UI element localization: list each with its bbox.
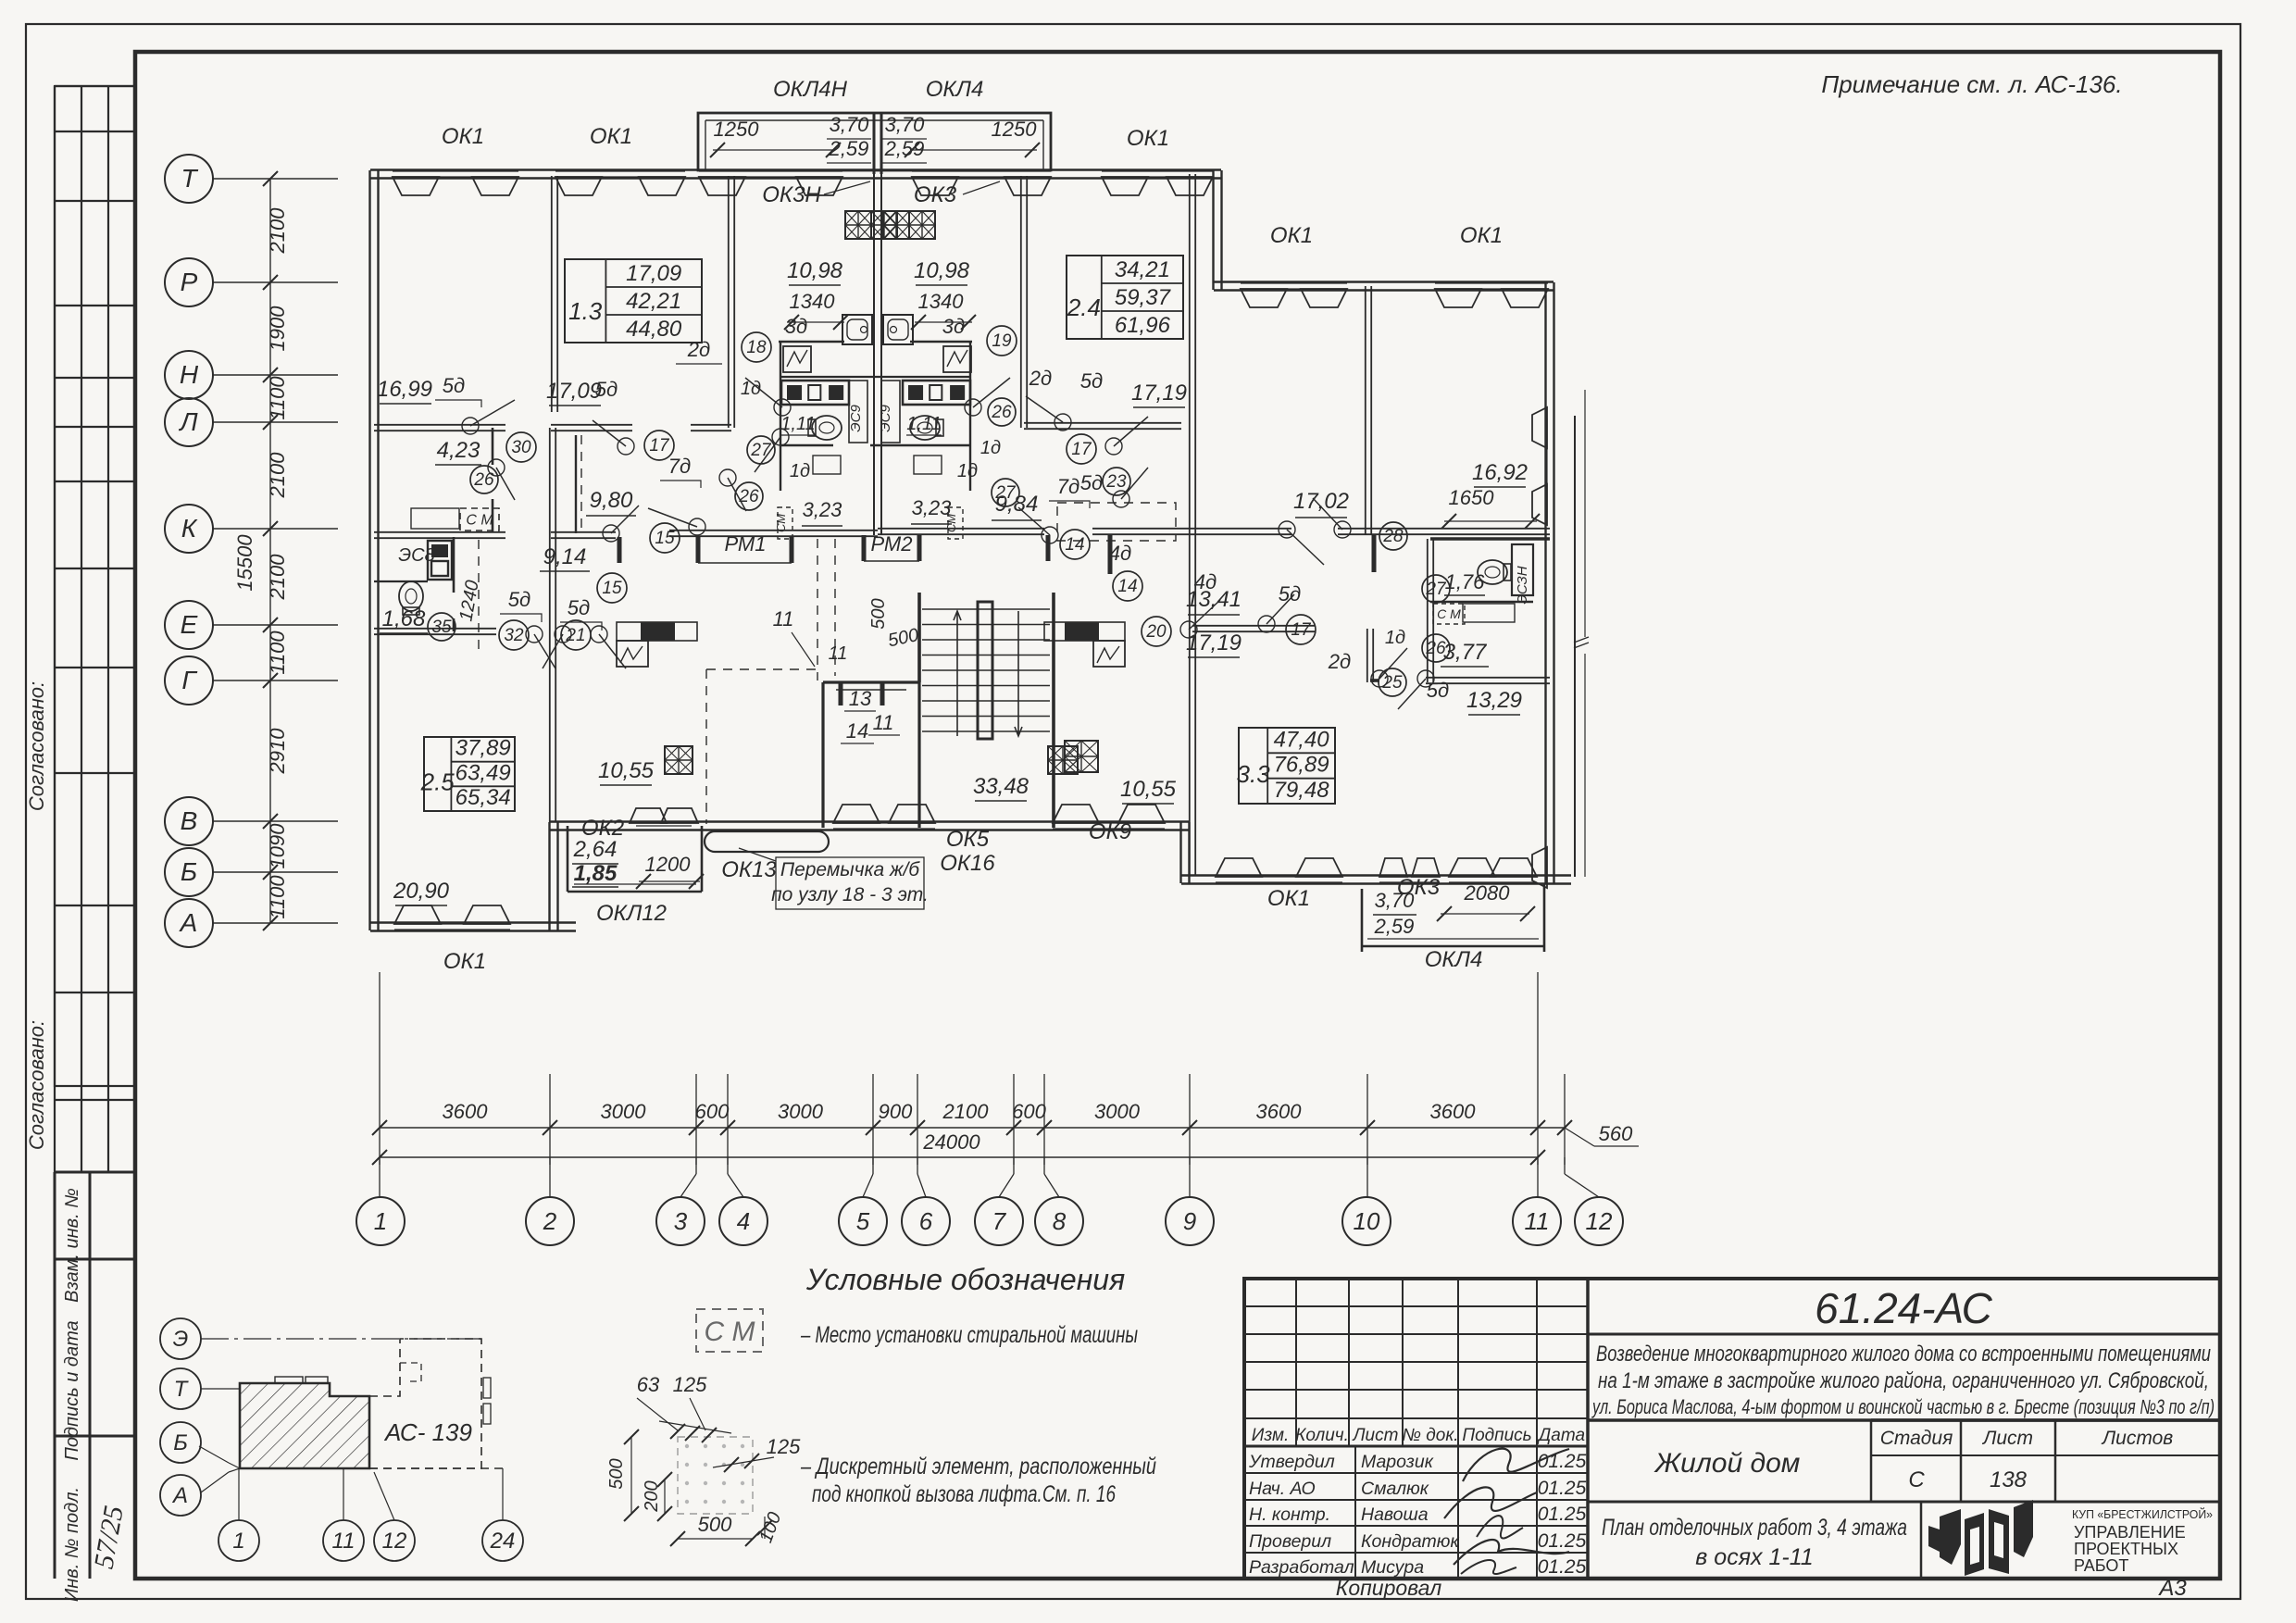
svg-text:Проверил: Проверил — [1249, 1531, 1331, 1552]
svg-text:138: 138 — [1990, 1467, 2028, 1492]
legend SM symbol — [696, 1309, 763, 1352]
svg-text:2д: 2д — [1328, 650, 1351, 673]
svg-text:ОК1: ОК1 — [1127, 126, 1169, 151]
svg-text:Утвердил: Утвердил — [1248, 1452, 1335, 1472]
svg-text:20,90: 20,90 — [393, 879, 450, 904]
svg-text:ОК13: ОК13 — [721, 857, 777, 882]
svg-text:17,09: 17,09 — [626, 261, 681, 286]
svg-text:1,76: 1,76 — [1445, 570, 1486, 593]
svg-text:59,37: 59,37 — [1115, 285, 1172, 310]
svg-text:15: 15 — [602, 579, 622, 598]
svg-text:9,80: 9,80 — [590, 488, 633, 513]
svg-text:17,02: 17,02 — [1293, 489, 1349, 514]
left side table strip — [55, 85, 135, 87]
svg-text:63: 63 — [637, 1373, 660, 1396]
svg-text:Перемычка ж/б: Перемычка ж/б — [780, 859, 920, 880]
svg-text:900: 900 — [879, 1100, 913, 1123]
svg-text:Н. контр.: Н. контр. — [1249, 1504, 1330, 1525]
svg-text:РАБОТ: РАБОТ — [2074, 1556, 2128, 1575]
svg-text:2,64: 2,64 — [573, 837, 618, 862]
svg-text:3600: 3600 — [1256, 1100, 1303, 1123]
svg-text:5д: 5д — [508, 588, 530, 611]
staircase — [922, 608, 1050, 610]
svg-text:1100: 1100 — [266, 376, 289, 420]
bottom axis numbers and dimension chains — [379, 972, 381, 1165]
svg-text:500: 500 — [868, 598, 889, 629]
svg-text:Нач. АО: Нач. АО — [1249, 1479, 1316, 1499]
svg-text:Н: Н — [180, 360, 199, 389]
svg-text:2100: 2100 — [266, 554, 289, 601]
svg-text:10,55: 10,55 — [598, 758, 655, 783]
svg-text:А3: А3 — [2157, 1576, 2187, 1601]
svg-text:10,55: 10,55 — [1120, 777, 1177, 802]
svg-text:1250: 1250 — [992, 118, 1038, 141]
svg-text:16,99: 16,99 — [377, 377, 432, 402]
svg-text:61.24-АС: 61.24-АС — [1815, 1284, 1993, 1332]
svg-text:1д: 1д — [957, 461, 978, 481]
svg-text:14: 14 — [1117, 577, 1137, 596]
svg-text:21: 21 — [565, 626, 585, 645]
svg-text:1090: 1090 — [266, 823, 289, 869]
interior walls — [551, 176, 553, 412]
svg-text:3,23: 3,23 — [803, 498, 843, 521]
svg-text:Т: Т — [181, 164, 198, 193]
svg-text:1,11: 1,11 — [780, 414, 815, 434]
svg-text:по узлу 18 - 3 эт.: по узлу 18 - 3 эт. — [771, 884, 929, 905]
SM washing machine boxes — [460, 508, 499, 531]
svg-text:ОК1: ОК1 — [442, 124, 484, 149]
svg-text:СМ: СМ — [774, 514, 788, 532]
svg-text:ОК3: ОК3 — [914, 182, 957, 207]
svg-text:1100: 1100 — [266, 630, 289, 675]
svg-text:1,85: 1,85 — [574, 861, 618, 886]
svg-text:Копировал: Копировал — [1336, 1576, 1441, 1600]
svg-text:План отделочных работ 3, 4 эта: План отделочных работ 3, 4 этажа — [1602, 1515, 1907, 1541]
svg-text:ОК3: ОК3 — [1397, 875, 1441, 900]
door swings — [470, 400, 515, 426]
svg-text:14: 14 — [1065, 535, 1084, 555]
svg-text:АС- 139: АС- 139 — [383, 1418, 472, 1446]
svg-text:12: 12 — [1586, 1207, 1613, 1235]
elevator shaft — [823, 680, 919, 683]
svg-text:27: 27 — [750, 441, 772, 460]
svg-text:17: 17 — [1071, 440, 1092, 459]
svg-text:500: 500 — [698, 1513, 732, 1536]
svg-text:1д: 1д — [741, 379, 761, 399]
svg-text:01.25: 01.25 — [1538, 1556, 1587, 1578]
svg-text:17: 17 — [1291, 620, 1312, 640]
svg-text:11: 11 — [332, 1529, 356, 1554]
svg-text:14: 14 — [846, 719, 868, 743]
svg-text:1д: 1д — [1385, 628, 1405, 648]
svg-text:1д: 1д — [790, 461, 810, 481]
svg-text:28: 28 — [1382, 527, 1404, 546]
svg-text:23: 23 — [1105, 472, 1127, 492]
left axis letters and vertical dimension chain — [165, 155, 213, 203]
svg-text:3600: 3600 — [1430, 1100, 1477, 1123]
svg-text:5д: 5д — [568, 596, 590, 619]
svg-text:Е: Е — [181, 610, 198, 639]
svg-text:2910: 2910 — [266, 728, 289, 775]
ventilation shafts with X pattern — [845, 211, 871, 239]
svg-text:3д: 3д — [942, 315, 965, 338]
svg-text:ЭС9: ЭС9 — [848, 405, 864, 432]
svg-text:1,68: 1,68 — [382, 606, 426, 631]
svg-text:10,98: 10,98 — [787, 258, 843, 283]
windows on bottom walls — [394, 923, 510, 925]
svg-text:25: 25 — [1381, 673, 1403, 693]
svg-text:76,89: 76,89 — [1274, 753, 1329, 778]
svg-text:15: 15 — [655, 529, 675, 548]
svg-text:Жилой дом: Жилой дом — [1653, 1448, 1801, 1479]
svg-text:Смалюк: Смалюк — [1361, 1479, 1429, 1499]
svg-text:Листов: Листов — [2101, 1428, 2174, 1449]
svg-text:3.3: 3.3 — [1237, 760, 1271, 788]
svg-text:44,80: 44,80 — [626, 317, 682, 342]
svg-text:27: 27 — [1425, 580, 1447, 599]
svg-text:1900: 1900 — [266, 306, 289, 352]
svg-text:1100: 1100 — [266, 875, 289, 919]
svg-text:Т: Т — [174, 1377, 190, 1402]
svg-text:Колич.: Колич. — [1295, 1426, 1349, 1445]
svg-text:17,19: 17,19 — [1186, 630, 1242, 655]
svg-text:2: 2 — [543, 1207, 557, 1235]
svg-text:2.4: 2.4 — [1067, 293, 1101, 321]
svg-text:10,98: 10,98 — [914, 258, 970, 283]
svg-text:16,92: 16,92 — [1472, 460, 1528, 485]
svg-text:Возведение многоквартирного жи: Возведение многоквартирного жилого дома … — [1596, 1342, 2211, 1367]
svg-text:ЭС8: ЭС8 — [398, 545, 434, 566]
svg-text:2,59: 2,59 — [884, 137, 925, 160]
counters with dots — [411, 508, 459, 529]
svg-text:5д: 5д — [595, 378, 618, 401]
svg-text:Э: Э — [173, 1327, 189, 1352]
svg-text:5д: 5д — [1080, 369, 1103, 393]
svg-text:Условные обозначения: Условные обозначения — [805, 1263, 1125, 1296]
svg-text:в осях 1-11: в осях 1-11 — [1695, 1544, 1813, 1570]
svg-text:Б: Б — [173, 1430, 188, 1455]
svg-text:01.25: 01.25 — [1538, 1504, 1587, 1525]
svg-text:ОКЛ4Н: ОКЛ4Н — [773, 77, 848, 102]
svg-text:ОК1: ОК1 — [443, 949, 486, 974]
svg-text:Разработал: Разработал — [1249, 1557, 1354, 1578]
svg-text:А: А — [171, 1483, 188, 1508]
svg-text:2,59: 2,59 — [829, 137, 869, 160]
svg-text:2100: 2100 — [266, 452, 289, 499]
svg-text:2д: 2д — [1029, 367, 1052, 390]
svg-text:600: 600 — [695, 1100, 730, 1123]
svg-text:ОК1: ОК1 — [1270, 223, 1313, 248]
svg-text:УПРАВЛЕНИЕ: УПРАВЛЕНИЕ — [2074, 1523, 2186, 1542]
dashed construction lines — [580, 435, 582, 532]
shaft ES8 black unit — [428, 541, 452, 580]
windows on right wall — [1546, 418, 1548, 518]
svg-text:3000: 3000 — [778, 1100, 824, 1123]
svg-text:ОК9: ОК9 — [1089, 819, 1131, 844]
svg-text:4д: 4д — [1194, 570, 1217, 593]
svg-text:Г: Г — [181, 666, 197, 694]
svg-text:КУП «БРЕСТЖИЛСТРОЙ»: КУП «БРЕСТЖИЛСТРОЙ» — [2072, 1507, 2213, 1521]
svg-text:01.25: 01.25 — [1538, 1478, 1587, 1499]
svg-text:63,49: 63,49 — [455, 760, 511, 785]
svg-text:17,09: 17,09 — [546, 379, 602, 404]
svg-text:26: 26 — [991, 403, 1012, 422]
svg-text:3,70: 3,70 — [830, 113, 870, 136]
svg-text:1340: 1340 — [790, 290, 836, 313]
svg-text:ОК3Н: ОК3Н — [762, 182, 821, 207]
svg-text:125: 125 — [673, 1373, 707, 1396]
svg-text:01.25: 01.25 — [1538, 1451, 1587, 1472]
svg-text:В: В — [181, 806, 198, 835]
svg-text:1д: 1д — [980, 438, 1001, 458]
svg-text:Мисура: Мисура — [1361, 1557, 1424, 1578]
svg-text:1250: 1250 — [714, 118, 760, 141]
svg-text:РМ2: РМ2 — [871, 532, 913, 556]
toilets center (1,11 rooms) — [808, 416, 842, 440]
svg-text:4,23: 4,23 — [437, 438, 480, 463]
svg-text:560: 560 — [1599, 1122, 1633, 1145]
svg-text:ОКЛ4: ОКЛ4 — [926, 77, 984, 102]
svg-text:3,23: 3,23 — [912, 496, 953, 519]
svg-text:№ док.: № док. — [1402, 1426, 1458, 1445]
svg-text:9,84: 9,84 — [995, 492, 1039, 517]
svg-text:ПРОЕКТНЫХ: ПРОЕКТНЫХ — [2074, 1540, 2178, 1558]
svg-text:24: 24 — [490, 1529, 516, 1554]
svg-text:3,70: 3,70 — [885, 113, 926, 136]
svg-text:ОК1: ОК1 — [590, 124, 632, 149]
svg-text:ул. Бориса Маслова, 4-ым форто: ул. Бориса Маслова, 4-ым фортом и воинск… — [1591, 1395, 2215, 1418]
svg-text:Примечание см. л. АС-136.: Примечание см. л. АС-136. — [1821, 70, 2122, 98]
svg-text:ЭС9: ЭС9 — [878, 405, 893, 432]
svg-text:11: 11 — [773, 607, 794, 630]
door number circles — [506, 432, 536, 462]
svg-text:5д: 5д — [1279, 582, 1301, 606]
svg-text:ОКЛ4: ОКЛ4 — [1425, 947, 1483, 972]
svg-text:3600: 3600 — [443, 1100, 489, 1123]
svg-text:5: 5 — [856, 1207, 870, 1235]
windows on top wall — [393, 170, 518, 172]
svg-text:18: 18 — [746, 338, 767, 357]
svg-text:1: 1 — [232, 1529, 244, 1554]
svg-text:– Место установки стиральной м: – Место установки стиральной машины — [800, 1322, 1138, 1348]
svg-text:А: А — [179, 908, 198, 937]
svg-text:15500: 15500 — [233, 534, 256, 592]
svg-text:Р: Р — [181, 268, 198, 296]
svg-text:Стадия: Стадия — [1880, 1428, 1953, 1449]
svg-text:С: С — [1908, 1467, 1925, 1492]
svg-text:125: 125 — [767, 1435, 801, 1458]
svg-text:24000: 24000 — [922, 1130, 980, 1154]
svg-text:Кондратюк: Кондратюк — [1361, 1531, 1459, 1552]
svg-text:РМ1: РМ1 — [725, 532, 767, 556]
svg-text:35: 35 — [431, 618, 452, 637]
svg-text:ОКЛ12: ОКЛ12 — [596, 901, 667, 926]
svg-text:ОК16: ОК16 — [940, 851, 995, 876]
svg-text:33,48: 33,48 — [973, 774, 1029, 799]
svg-text:Взам. инв. №: Взам. инв. № — [62, 1188, 82, 1303]
svg-text:1200: 1200 — [645, 853, 692, 876]
svg-text:13,29: 13,29 — [1466, 688, 1522, 713]
svg-text:ОК5: ОК5 — [946, 827, 990, 852]
logo УПРАВЛЕНИЕ ПРОЕКТНЫХ РАБОТ — [1928, 1500, 2033, 1576]
svg-text:К: К — [181, 514, 198, 543]
svg-text:9,14: 9,14 — [543, 544, 587, 569]
svg-text:С М: С М — [1437, 606, 1461, 621]
legend discrete element — [678, 1437, 753, 1514]
floor plan outer walls (double lines) — [368, 170, 370, 930]
svg-text:7д: 7д — [668, 455, 691, 478]
svg-text:– Дискретный элемент, располож: – Дискретный элемент, расположенный — [800, 1454, 1156, 1479]
svg-text:2100: 2100 — [942, 1100, 990, 1123]
svg-text:11: 11 — [1525, 1207, 1550, 1235]
svg-text:Л: Л — [178, 407, 198, 436]
svg-text:Дата: Дата — [1537, 1426, 1585, 1445]
svg-text:17,19: 17,19 — [1131, 381, 1187, 406]
svg-text:4д: 4д — [1109, 542, 1131, 565]
svg-text:11: 11 — [829, 643, 848, 664]
svg-text:19: 19 — [992, 331, 1012, 351]
svg-text:5д: 5д — [1427, 679, 1449, 702]
title block — [1244, 1279, 2220, 1579]
svg-text:17: 17 — [649, 436, 670, 456]
svg-text:79,48: 79,48 — [1274, 778, 1330, 803]
key plan dashed outline — [369, 1339, 481, 1468]
svg-text:С М: С М — [466, 512, 493, 528]
svg-text:1: 1 — [374, 1207, 387, 1235]
svg-text:500: 500 — [606, 1458, 627, 1489]
svg-text:7: 7 — [992, 1207, 1007, 1235]
svg-text:6: 6 — [919, 1207, 933, 1235]
svg-text:5д: 5д — [443, 374, 465, 397]
svg-text:ОК1: ОК1 — [1460, 223, 1503, 248]
svg-text:Согласовано:: Согласовано: — [25, 1020, 48, 1150]
svg-text:3д: 3д — [785, 315, 807, 338]
svg-text:34,21: 34,21 — [1115, 257, 1170, 282]
svg-text:Б: Б — [181, 857, 197, 886]
svg-text:11: 11 — [873, 711, 894, 734]
svg-text:Подпись и дата: Подпись и дата — [62, 1320, 82, 1460]
svg-text:3: 3 — [674, 1207, 688, 1235]
balcony OKL4 bottom right — [1361, 889, 1364, 952]
svg-text:Подпись: Подпись — [1462, 1426, 1531, 1445]
svg-text:01.25: 01.25 — [1538, 1530, 1587, 1552]
svg-text:47,40: 47,40 — [1274, 727, 1330, 752]
svg-text:2080: 2080 — [1464, 881, 1511, 905]
svg-text:13: 13 — [849, 687, 872, 710]
svg-text:под кнопкой вызова лифта.См. п: под кнопкой вызова лифта.См. п. 16 — [812, 1481, 1116, 1507]
svg-text:Марозик: Марозик — [1361, 1452, 1434, 1472]
left strip bottom cells — [55, 1171, 135, 1174]
svg-text:Лист: Лист — [1981, 1428, 2033, 1449]
svg-text:8: 8 — [1053, 1207, 1067, 1235]
right side loggia strip — [1574, 416, 1576, 877]
svg-text:61,96: 61,96 — [1115, 313, 1171, 338]
svg-text:Лист: Лист — [1352, 1426, 1399, 1445]
svg-text:42,21: 42,21 — [626, 289, 681, 314]
svg-text:3000: 3000 — [601, 1100, 647, 1123]
svg-text:1,11: 1,11 — [906, 414, 941, 434]
svg-text:1650: 1650 — [1449, 486, 1495, 509]
svg-text:Навоша: Навоша — [1361, 1504, 1429, 1525]
svg-text:ЭСЗН: ЭСЗН — [1515, 566, 1530, 604]
svg-text:37,89: 37,89 — [455, 736, 511, 761]
kitchen unit bands (upper center, mirrored) — [781, 381, 849, 405]
room area matrices — [565, 259, 702, 343]
bathroom right block fixtures — [1512, 544, 1533, 595]
svg-text:Изм.: Изм. — [1252, 1426, 1290, 1445]
balcony OKL12 bottom left — [567, 826, 569, 892]
svg-text:С М: С М — [705, 1317, 755, 1347]
svg-text:3,77: 3,77 — [1443, 640, 1488, 665]
svg-text:на 1-м этаже в застройке жилог: на 1-м этаже в застройке жилого района, … — [1598, 1368, 2209, 1393]
svg-text:600: 600 — [1012, 1100, 1046, 1123]
balcony OKL4N / OKL4 top center — [698, 113, 1051, 170]
svg-text:26: 26 — [473, 470, 494, 490]
svg-text:9: 9 — [1183, 1207, 1196, 1235]
svg-text:2,59: 2,59 — [1374, 915, 1415, 938]
svg-text:2.5: 2.5 — [420, 768, 455, 796]
svg-text:3000: 3000 — [1094, 1100, 1141, 1123]
svg-text:4: 4 — [737, 1207, 750, 1235]
svg-text:65,34: 65,34 — [455, 785, 511, 810]
svg-text:12: 12 — [382, 1529, 407, 1554]
svg-text:30: 30 — [511, 438, 531, 457]
svg-text:5д: 5д — [1080, 471, 1103, 494]
svg-text:20: 20 — [1145, 622, 1167, 642]
svg-text:ОК1: ОК1 — [1267, 886, 1310, 911]
svg-text:2100: 2100 — [266, 207, 289, 255]
sinks at center top — [842, 315, 872, 344]
svg-text:10: 10 — [1354, 1207, 1380, 1235]
svg-text:32: 32 — [504, 626, 524, 645]
svg-text:1.3: 1.3 — [568, 297, 603, 325]
svg-text:Инв. № подл.: Инв. № подл. — [62, 1487, 82, 1602]
svg-text:Согласовано:: Согласовано: — [25, 681, 48, 811]
svg-text:1340: 1340 — [918, 290, 965, 313]
svg-text:7д: 7д — [1057, 475, 1079, 498]
svg-text:2д: 2д — [687, 338, 710, 361]
